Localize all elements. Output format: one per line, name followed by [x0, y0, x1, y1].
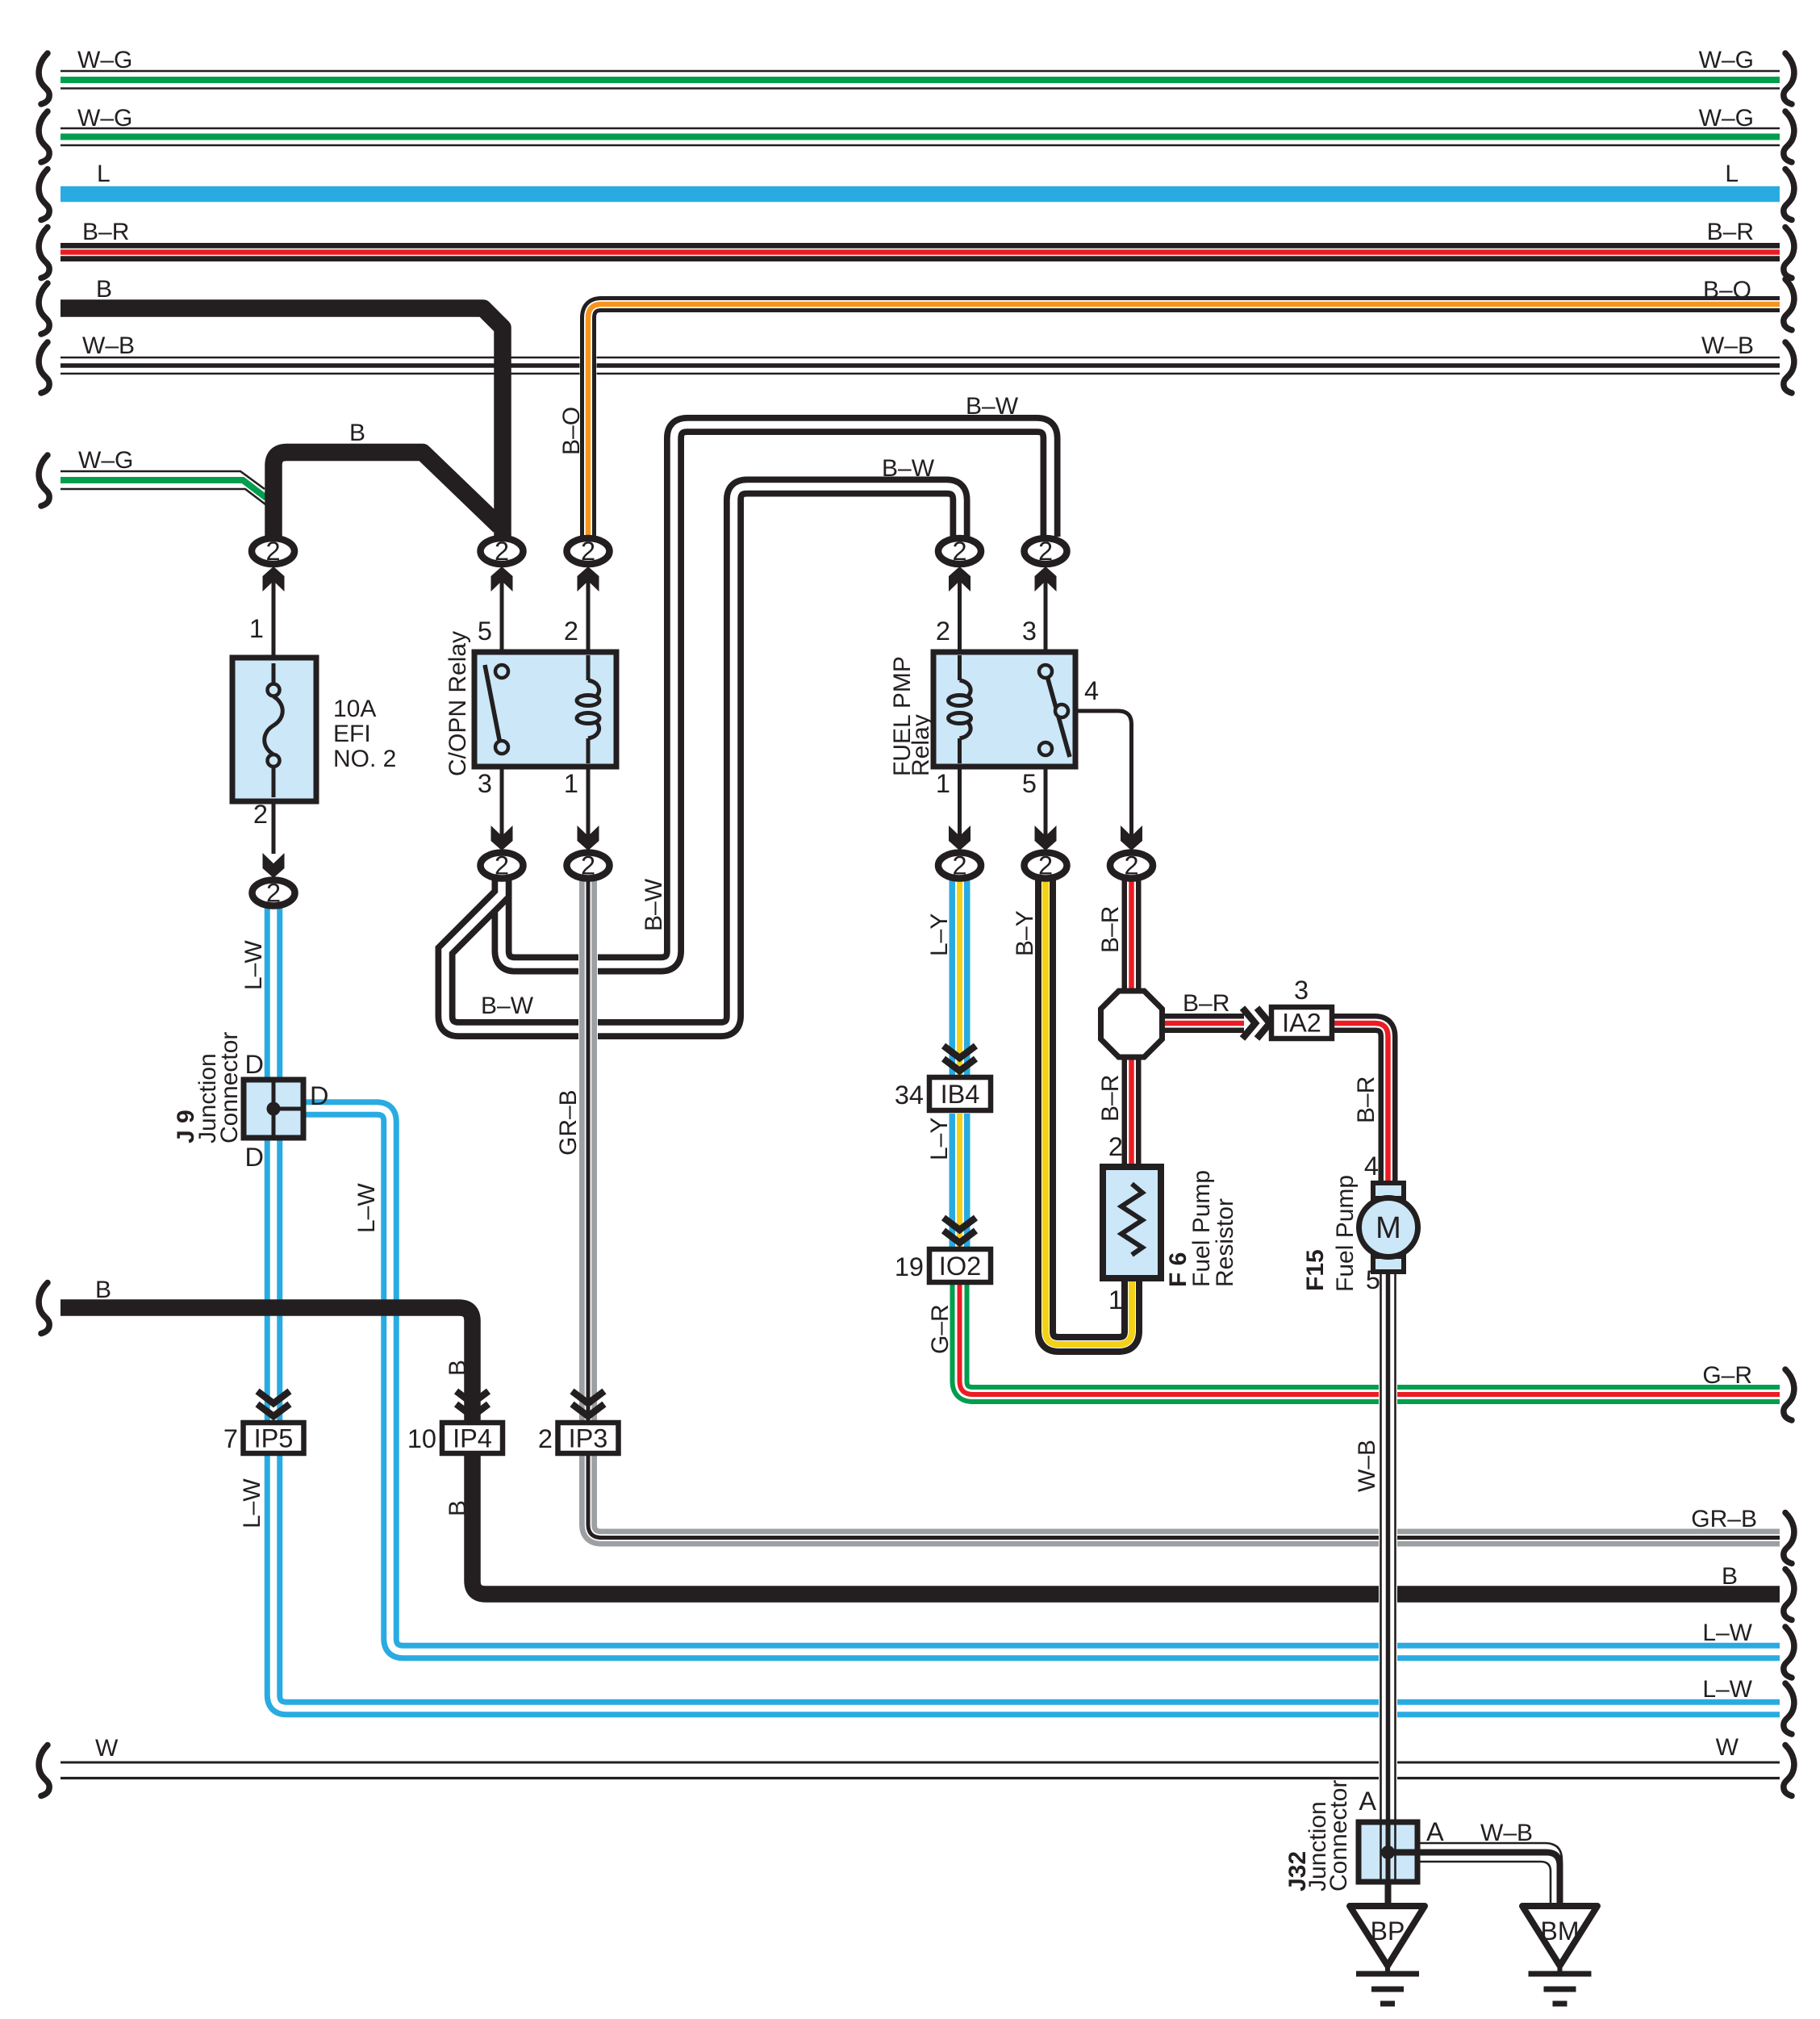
arrow down into connector below FUEL PMP pin 5	[1035, 826, 1057, 851]
node connector 2 below FUEL PMP pin 1	[938, 851, 981, 880]
svg-text:Connector: Connector	[1325, 1780, 1352, 1892]
squiggle L right	[1784, 169, 1794, 220]
C/OPN relay switch	[485, 665, 508, 754]
wire B-R bus	[61, 243, 1780, 261]
ground symbol below BP	[1356, 1964, 1419, 2004]
squiggle W-B right	[1784, 342, 1794, 393]
squiggle GR-B right	[1784, 1513, 1794, 1564]
svg-text:Fuel Pump: Fuel Pump	[1332, 1175, 1359, 1292]
squiggle B left	[39, 283, 49, 334]
svg-text:BP: BP	[1371, 1917, 1405, 1946]
svg-text:W–G: W–G	[77, 105, 132, 132]
svg-text:W–G: W–G	[1699, 105, 1754, 132]
svg-text:A: A	[1359, 1787, 1376, 1816]
svg-text:B: B	[95, 1277, 111, 1303]
svg-text:1: 1	[564, 769, 578, 798]
svg-text:3: 3	[1294, 976, 1309, 1005]
svg-text:34: 34	[895, 1081, 924, 1110]
connector IO2 box, pin 19	[929, 1249, 991, 1282]
svg-text:2: 2	[936, 617, 950, 646]
wire B-W inner loop: C/OPN pin3 connector diagonal, down, right, up, right to FUEL PMP pin2 connector	[445, 487, 960, 1030]
squiggle B bus right	[1784, 1570, 1794, 1620]
svg-text:A: A	[1426, 1817, 1444, 1846]
arrow up into connector at C/OPN pin 2	[578, 566, 599, 591]
arrow up into connector at C/OPN pin 5	[491, 566, 513, 591]
motor fuel pump bottom terminal	[1373, 1256, 1404, 1272]
wire C/OPN relay pin 2 stub	[586, 581, 591, 654]
svg-text:L–Y: L–Y	[926, 913, 953, 956]
svg-text:19: 19	[895, 1252, 924, 1281]
svg-text:W–G: W–G	[78, 447, 133, 474]
squiggle B-R left	[39, 228, 49, 278]
svg-text:2: 2	[1038, 851, 1053, 880]
node connector 2 below FUEL PMP pin 5	[1025, 851, 1067, 880]
node connector 2 above C/OPN pin 2	[567, 537, 610, 566]
svg-text:L–W: L–W	[353, 1183, 380, 1233]
svg-text:4: 4	[1364, 1152, 1379, 1181]
wire FUEL PMP relay pin 3 stub	[1044, 581, 1048, 654]
svg-text:2: 2	[265, 537, 280, 566]
svg-text:W–B: W–B	[82, 332, 135, 359]
svg-text:B–Y: B–Y	[1012, 910, 1038, 956]
squiggle W left	[39, 1745, 49, 1796]
svg-text:B–O: B–O	[1703, 277, 1751, 303]
wire G-R from IO2 down and right to bus	[960, 1282, 1780, 1394]
svg-text:2: 2	[495, 851, 509, 880]
node connector 2 above FUEL PMP pin 3	[1025, 537, 1067, 566]
svg-text:2: 2	[538, 1424, 553, 1453]
wire B branch from fuse connector up, right, diagonal joining B vertical	[273, 453, 499, 539]
fuse element symbol	[265, 663, 283, 797]
fuse 10A EFI NO.2 box	[232, 658, 316, 801]
junction connector J9 box	[244, 1080, 303, 1138]
squiggle L-W 1 right	[1784, 1627, 1794, 1678]
svg-text:2: 2	[266, 879, 281, 908]
svg-text:2: 2	[952, 537, 966, 566]
svg-text:3: 3	[1022, 617, 1037, 646]
svg-text:W–B: W–B	[1701, 332, 1754, 359]
svg-text:W: W	[95, 1735, 119, 1762]
svg-text:W: W	[1716, 1734, 1739, 1761]
connector IB4 box, pin 34	[929, 1077, 991, 1110]
wire B-W outer loop: C/OPN pin3 connector down, right, up, right to FUEL PMP pin3 connector	[502, 425, 1050, 965]
squiggle W-G 1 left	[39, 53, 49, 104]
svg-text:B–W: B–W	[641, 878, 667, 931]
svg-text:B: B	[96, 276, 112, 303]
J32 internal wires and junction dot	[1381, 1822, 1418, 1882]
squiggle W-G entry left	[39, 455, 49, 506]
svg-text:B–W: B–W	[882, 455, 935, 482]
wire C/OPN relay pin 5 stub	[500, 581, 504, 654]
FUEL PMP Relay box	[933, 652, 1075, 767]
squiggle W-G 2 right	[1784, 111, 1794, 162]
svg-text:2: 2	[564, 617, 578, 646]
svg-text:5: 5	[1366, 1265, 1380, 1294]
svg-text:B: B	[1722, 1563, 1738, 1590]
arrow up into connector at FUEL PMP pin 2	[949, 566, 971, 591]
motor fuel pump top terminal	[1373, 1183, 1404, 1198]
svg-text:2: 2	[1108, 1132, 1123, 1161]
svg-text:4: 4	[1084, 676, 1099, 705]
C/OPN Relay box	[474, 652, 616, 767]
svg-text:B–W: B–W	[481, 993, 534, 1019]
wire FUEL PMP relay pin 1 stub	[958, 767, 962, 839]
squiggle W-G 2 left	[39, 111, 49, 162]
node connector 2 above FUEL PMP pin 2	[938, 537, 981, 566]
svg-text:F15: F15	[1302, 1249, 1329, 1291]
svg-text:B–W: B–W	[966, 393, 1019, 420]
wire B lower-left entry: left edge right, down through IP4, down, right to B bus	[61, 1308, 1780, 1595]
chevron pair down above IP3	[572, 1391, 604, 1416]
connector IP4 box, pin 10	[442, 1423, 503, 1453]
svg-text:GR–B: GR–B	[1691, 1506, 1757, 1532]
FUEL PMP relay coil	[949, 655, 971, 763]
svg-text:2: 2	[1038, 537, 1053, 566]
svg-text:Connector: Connector	[216, 1032, 243, 1143]
arrow up into connector at fuse pin 1	[263, 566, 285, 591]
wire fuse pin 2 stub	[272, 801, 276, 854]
svg-text:B–R: B–R	[1097, 1075, 1124, 1122]
svg-text:B–R: B–R	[1353, 1076, 1380, 1123]
svg-text:2: 2	[1124, 851, 1138, 880]
svg-text:1: 1	[249, 614, 264, 643]
wire B-R from IA2 right, down to fuel pump pin 4	[1332, 1023, 1388, 1185]
FUEL PMP relay switch with pin4 contact	[1039, 665, 1070, 757]
svg-text:D: D	[245, 1050, 264, 1079]
connector IA2 box, pin 3	[1271, 1007, 1332, 1039]
ground symbol below BM	[1529, 1964, 1592, 2004]
resistor F6 Fuel Pump Resistor box	[1103, 1167, 1161, 1278]
svg-text:G–R: G–R	[1702, 1362, 1752, 1389]
chevron pair down above IB4	[944, 1046, 976, 1071]
svg-text:Relay: Relay	[908, 714, 934, 776]
svg-text:3: 3	[478, 769, 492, 798]
squiggle B entry left	[39, 1283, 49, 1334]
arrow down into connector below C/OPN pin 3	[491, 826, 513, 851]
svg-text:10A: 10A	[333, 696, 376, 722]
wire W-G bus 2	[61, 128, 1780, 145]
junction connector J32 box	[1359, 1822, 1417, 1882]
wire GR-B from C/OPN pin1 connector down through IP3, right to GR-B bus	[588, 880, 1780, 1538]
wire W-B from J32 right, down to BM ground	[1417, 1843, 1562, 1909]
wire L-W from J9 right branch to bus (upper L-W bus)	[303, 1109, 1780, 1653]
svg-text:L–Y: L–Y	[926, 1118, 953, 1160]
svg-text:L–W: L–W	[239, 1478, 265, 1528]
svg-text:W–B: W–B	[1354, 1440, 1380, 1492]
svg-text:10: 10	[407, 1424, 436, 1453]
svg-text:GR–B: GR–B	[555, 1089, 582, 1156]
svg-text:NO. 2: NO. 2	[333, 746, 396, 772]
wire B-Y from FUEL PMP pin5 connector down, right, up to F6 pin 1	[1046, 876, 1132, 1344]
svg-text:B: B	[445, 1360, 471, 1376]
svg-text:IO2: IO2	[939, 1252, 981, 1281]
svg-text:L: L	[1725, 161, 1739, 187]
svg-text:W–G: W–G	[1699, 47, 1754, 73]
J9 internal wires and junction dot	[267, 1080, 304, 1138]
chevron pair down above IP4	[457, 1391, 489, 1416]
wire C/OPN relay pin 3 stub	[500, 767, 504, 839]
arrow down into connector below FUEL PMP pin 1	[949, 826, 971, 851]
wire from J32 down to BP ground	[1385, 1882, 1392, 1909]
svg-text:2: 2	[581, 537, 595, 566]
squiggle B-O right	[1784, 279, 1794, 330]
svg-text:B–R: B–R	[82, 219, 129, 245]
node connector 2 below FUEL PMP pin 4	[1110, 851, 1153, 880]
svg-text:5: 5	[1022, 769, 1037, 798]
squiggle L left	[39, 169, 49, 220]
svg-text:B–R: B–R	[1183, 990, 1229, 1017]
wire B-R from octagon node right to IA2 chevrons	[1159, 1014, 1244, 1033]
svg-text:D: D	[310, 1081, 328, 1110]
wire B from top bus turning down to connector above C/OPN pin 5	[61, 308, 503, 537]
svg-text:IA2: IA2	[1282, 1009, 1321, 1038]
chevron pair pointing right before IA2	[1242, 1008, 1270, 1039]
svg-text:IB4: IB4	[941, 1080, 980, 1109]
svg-text:2: 2	[952, 851, 966, 880]
svg-text:1: 1	[1108, 1285, 1123, 1315]
wire B-O from top bus turning down to connector above C/OPN pin 2	[588, 304, 1780, 537]
wire C/OPN relay pin 1 stub	[586, 767, 591, 839]
resistor zigzag element	[1121, 1184, 1142, 1255]
squiggle W right	[1784, 1745, 1794, 1796]
svg-text:B–O: B–O	[558, 407, 585, 455]
svg-text:2: 2	[495, 537, 509, 566]
squiggle B-R right	[1784, 228, 1794, 278]
arrow down into connector below FUEL PMP pin 4	[1121, 826, 1142, 851]
squiggle W-G 1 right	[1784, 53, 1794, 104]
ground triangle BM	[1522, 1906, 1597, 1966]
wire B-R from pin4 connector down to octagon node	[1122, 876, 1142, 997]
svg-text:L: L	[97, 161, 111, 187]
wire W-B from fuel pump pin 5 down to J32	[1381, 1269, 1396, 1822]
node connector 2 below fuse	[253, 879, 295, 908]
squiggle L-W 2 right	[1784, 1683, 1794, 1734]
svg-text:W–G: W–G	[77, 47, 132, 73]
svg-text:IP4: IP4	[453, 1424, 492, 1453]
wire FUEL PMP relay pin 2 stub	[958, 581, 962, 654]
wire W bus (bottom)	[61, 1762, 1780, 1779]
svg-text:BM: BM	[1541, 1917, 1580, 1946]
node connector 2 above C/OPN pin 5	[481, 537, 524, 566]
arrow down into connector below fuse pin 2	[263, 853, 285, 878]
wire L-W from connector via J9 and IP5 to bus (lower L-W bus)	[273, 907, 1780, 1708]
svg-text:Resistor: Resistor	[1212, 1198, 1238, 1287]
svg-text:G–R: G–R	[927, 1304, 954, 1354]
wire W-B bus	[61, 357, 1780, 374]
chevron pair down above IP5	[257, 1391, 290, 1416]
svg-text:B–R: B–R	[1097, 906, 1124, 953]
wire FUEL PMP relay pin 5 stub	[1044, 767, 1048, 839]
connector IP5 box, pin 7	[244, 1423, 304, 1453]
svg-text:2: 2	[581, 851, 595, 880]
svg-text:L–W: L–W	[1702, 1676, 1752, 1703]
svg-text:M: M	[1375, 1211, 1401, 1245]
svg-text:EFI: EFI	[333, 721, 371, 747]
arrow down into connector below C/OPN pin 1	[578, 826, 599, 851]
svg-text:7: 7	[223, 1424, 238, 1453]
wire W-G bus 1	[61, 71, 1780, 89]
svg-text:W–B: W–B	[1480, 1820, 1533, 1846]
svg-text:D: D	[245, 1143, 264, 1172]
svg-text:C/OPN Relay: C/OPN Relay	[445, 631, 471, 776]
motor M circle F15 Fuel Pump	[1359, 1198, 1418, 1257]
connector IP3 box, pin 2	[558, 1423, 619, 1453]
octagon splice node	[1101, 991, 1163, 1057]
wire B-R from octagon node down to F6 pin 2	[1122, 1051, 1142, 1185]
svg-text:2: 2	[253, 800, 268, 829]
svg-text:B: B	[349, 420, 365, 446]
svg-text:5: 5	[478, 617, 492, 646]
svg-text:L–W: L–W	[1702, 1620, 1752, 1646]
svg-text:B: B	[445, 1500, 471, 1516]
wire L-Y from FUEL PMP pin1 connector down through IB4 to IO2	[950, 876, 971, 1247]
arrow up into connector at FUEL PMP pin 3	[1035, 566, 1057, 591]
svg-text:B–R: B–R	[1707, 219, 1754, 245]
squiggle W-B left	[39, 342, 49, 393]
svg-text:L–W: L–W	[240, 940, 267, 990]
C/OPN relay coil	[577, 655, 599, 763]
node connector 2 below C/OPN pin 1	[567, 851, 610, 880]
chevron pair down above IO2	[944, 1218, 976, 1243]
node connector 2 below C/OPN pin 3	[481, 851, 524, 880]
svg-text:IP3: IP3	[569, 1424, 608, 1453]
wire fuse pin 1 stub	[272, 579, 276, 658]
squiggle G-R right	[1784, 1369, 1794, 1420]
ground triangle BP	[1350, 1906, 1425, 1966]
wire FUEL PMP relay pin 4 from contact right, down to connector	[1067, 711, 1132, 839]
wire L bus	[61, 186, 1780, 203]
svg-text:IP5: IP5	[254, 1424, 294, 1453]
node connector 2 above fuse	[252, 537, 294, 566]
svg-text:1: 1	[936, 769, 950, 798]
wire W-G entry (left, to junction with B)	[61, 471, 269, 507]
